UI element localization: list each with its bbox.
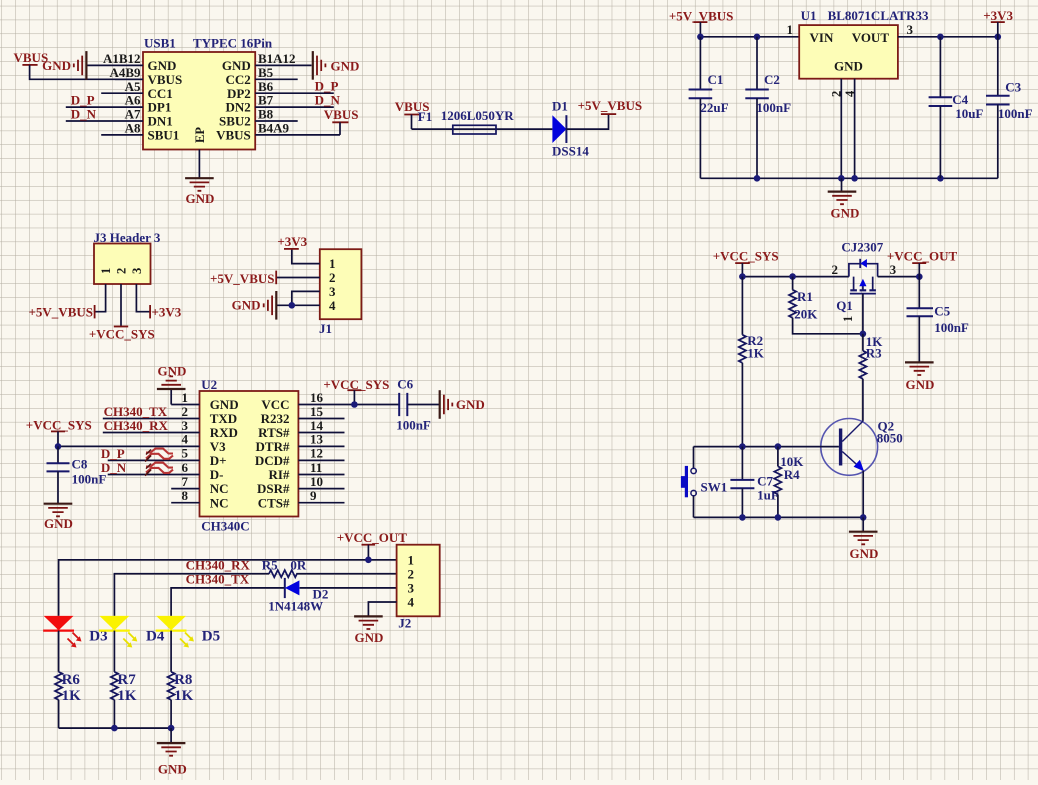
- pin 1 of J3: [95, 284, 106, 312]
- ground GND under USB1: [185, 178, 214, 206]
- svg-text:DTR#: DTR#: [256, 439, 290, 454]
- svg-text:+3V3: +3V3: [277, 234, 307, 249]
- svg-text:GND: GND: [148, 58, 177, 73]
- power port +5V_VBUS at J3: [29, 305, 95, 320]
- svg-text:C1: C1: [708, 72, 724, 87]
- svg-text:NC: NC: [210, 481, 229, 496]
- svg-text:DP1: DP1: [148, 100, 172, 115]
- pin 14 of U2: [298, 418, 344, 433]
- svg-text:+VCC_OUT: +VCC_OUT: [337, 530, 408, 545]
- header J3 body: [94, 230, 161, 284]
- svg-text:4: 4: [843, 90, 857, 97]
- svg-text:B6: B6: [258, 79, 274, 94]
- svg-text:3: 3: [130, 268, 144, 274]
- svg-text:1K: 1K: [117, 688, 136, 704]
- svg-text:B7: B7: [258, 93, 274, 108]
- svg-text:C5: C5: [934, 304, 950, 319]
- capacitor C1 22uF: [689, 37, 729, 179]
- IC U2 CH340C body: [200, 377, 299, 534]
- svg-text:3: 3: [329, 284, 336, 299]
- svg-text:GND: GND: [834, 59, 863, 74]
- pin B1A12: [255, 51, 311, 66]
- svg-text:GND: GND: [222, 58, 251, 73]
- svg-text:F1: F1: [418, 109, 432, 124]
- junction: [860, 331, 867, 338]
- transistor Q2 8050: [821, 418, 903, 475]
- svg-text:VBUS: VBUS: [324, 107, 359, 122]
- pin 4 of J1: [276, 304, 320, 306]
- svg-text:C4: C4: [952, 92, 968, 107]
- ground GND under U1: [828, 178, 860, 220]
- svg-text:GND: GND: [456, 397, 485, 412]
- pin 3 of J3: [136, 284, 150, 312]
- svg-text:CH340_TX: CH340_TX: [186, 572, 250, 587]
- svg-text:GND: GND: [210, 397, 239, 412]
- junction: [289, 302, 296, 309]
- capacitor C6 100nF: [396, 377, 440, 433]
- svg-text:4: 4: [408, 595, 415, 610]
- svg-text:R5: R5: [262, 558, 278, 573]
- svg-text:6: 6: [182, 460, 189, 475]
- svg-text:C8: C8: [72, 457, 88, 472]
- svg-text:RI#: RI#: [269, 467, 290, 482]
- svg-text:20K: 20K: [794, 306, 818, 321]
- svg-text:BL8071CLATR33: BL8071CLATR33: [828, 8, 929, 23]
- svg-text:GND: GND: [331, 59, 360, 74]
- pin 9 of U2: [298, 488, 344, 503]
- svg-text:9: 9: [310, 488, 317, 503]
- junction: [739, 273, 746, 280]
- svg-text:A4B9: A4B9: [109, 65, 141, 80]
- svg-text:GND: GND: [355, 630, 384, 645]
- pin A7: [66, 107, 143, 122]
- power port +VCC_OUT at J2: [337, 530, 408, 560]
- svg-text:+VCC_SYS: +VCC_SYS: [26, 417, 92, 432]
- svg-text:GND: GND: [158, 364, 187, 379]
- pin 3 of U2 wire CH340_RX: [103, 418, 200, 433]
- junction: [754, 175, 761, 182]
- svg-text:R3: R3: [866, 346, 882, 361]
- svg-text:15: 15: [310, 404, 324, 419]
- pin 2 of U1: [830, 79, 844, 179]
- fuse F1 1206L050YR: [418, 108, 514, 134]
- svg-text:8: 8: [182, 488, 189, 503]
- svg-text:100nF: 100nF: [396, 418, 431, 433]
- svg-text:+VCC_SYS: +VCC_SYS: [89, 327, 155, 342]
- power port +3V3: [983, 8, 1013, 37]
- junction: [995, 34, 1002, 41]
- svg-text:1: 1: [329, 256, 336, 271]
- pin B8: [255, 107, 298, 122]
- svg-text:14: 14: [310, 418, 324, 433]
- svg-text:3: 3: [890, 262, 897, 277]
- svg-text:10: 10: [310, 474, 323, 489]
- pin 7 of U2: [171, 474, 199, 489]
- ground GND at J1: [232, 291, 277, 320]
- svg-text:A7: A7: [125, 107, 141, 122]
- svg-text:DSS14: DSS14: [552, 144, 589, 159]
- pin 2 of J3: [120, 284, 122, 326]
- svg-text:VIN: VIN: [810, 30, 834, 45]
- svg-text:C6: C6: [397, 377, 413, 392]
- LED D4 yellow: [99, 616, 165, 648]
- pin 4 of J2 to ground: [368, 602, 396, 616]
- svg-text:+3V3: +3V3: [152, 305, 182, 320]
- svg-text:J3 Header 3: J3 Header 3: [94, 230, 161, 245]
- svg-text:5: 5: [182, 446, 189, 461]
- svg-text:A6: A6: [125, 93, 141, 108]
- capacitor C5 100nF: [907, 277, 969, 363]
- svg-text:13: 13: [310, 432, 324, 447]
- svg-text:USB1: USB1: [144, 36, 176, 51]
- svg-text:+3V3: +3V3: [983, 8, 1013, 23]
- ground GND under Q2: [849, 517, 879, 561]
- svg-text:C7: C7: [757, 474, 773, 489]
- junction: [860, 514, 867, 521]
- resistor R5 0R: [262, 558, 307, 578]
- svg-text:R8: R8: [174, 672, 192, 688]
- svg-text:VOUT: VOUT: [852, 30, 890, 45]
- svg-text:TXD: TXD: [210, 411, 237, 426]
- junction: [754, 34, 761, 41]
- power port VBUS fuse input: [395, 99, 430, 129]
- svg-text:8050: 8050: [877, 430, 903, 445]
- svg-text:V3: V3: [210, 439, 226, 454]
- junction: [365, 557, 372, 564]
- pin B7: [255, 93, 334, 108]
- svg-text:SW1: SW1: [701, 480, 728, 495]
- ground GND under C5: [905, 362, 934, 392]
- svg-text:+VCC_OUT: +VCC_OUT: [887, 248, 958, 263]
- pin 4 of U2 wire: [58, 432, 200, 447]
- power port VBUS right: [324, 107, 359, 135]
- junction: [111, 725, 118, 732]
- wire Q1 drain to +VCC_OUT: [878, 276, 920, 278]
- svg-text:DN2: DN2: [226, 100, 251, 115]
- wire +VCC_SYS to Q1: [742, 276, 849, 278]
- junction: [739, 443, 746, 450]
- svg-text:D_P: D_P: [71, 93, 95, 108]
- pin 1 of J1 to +3V3: [292, 249, 320, 263]
- svg-text:VBUS: VBUS: [216, 128, 251, 143]
- svg-text:SBU1: SBU1: [148, 128, 180, 143]
- svg-text:SBU2: SBU2: [219, 114, 251, 129]
- junction: [937, 175, 944, 182]
- svg-text:12: 12: [310, 446, 323, 461]
- svg-text:7: 7: [182, 474, 189, 489]
- svg-text:100nF: 100nF: [72, 471, 107, 486]
- svg-text:J2: J2: [398, 615, 411, 630]
- svg-text:RXD: RXD: [210, 425, 238, 440]
- svg-text:C2: C2: [764, 72, 780, 87]
- power port +VCC_SYS at U2: [26, 417, 92, 446]
- junction: [697, 34, 704, 41]
- pin 1 of U2: [171, 390, 199, 405]
- svg-text:B5: B5: [258, 65, 274, 80]
- wire VBUS to D1: [412, 128, 553, 130]
- svg-text:VBUS: VBUS: [148, 72, 183, 87]
- pin 11 of U2: [298, 460, 344, 475]
- svg-text:EP: EP: [193, 127, 207, 143]
- svg-text:1: 1: [182, 390, 189, 405]
- svg-text:GND: GND: [850, 546, 879, 561]
- power port +VCC_SYS at switch circuit: [713, 249, 779, 277]
- junction: [775, 514, 782, 521]
- capacitor C4 10uF: [929, 37, 984, 179]
- pin 5 of U2 wire D_P: [101, 446, 200, 461]
- svg-text:+5V_VBUS: +5V_VBUS: [210, 271, 274, 286]
- svg-text:10uF: 10uF: [955, 106, 983, 121]
- ground GND under C8: [44, 504, 73, 531]
- switch SW1: [681, 447, 727, 518]
- svg-text:GND: GND: [185, 191, 214, 206]
- ground rail of switch circuit: [694, 516, 864, 518]
- resistor R7 1K: [111, 631, 137, 729]
- no-ERC marker pin6: [145, 463, 173, 476]
- svg-text:2: 2: [830, 91, 844, 97]
- pin 10 of U2: [298, 474, 344, 489]
- resistor R3 1K: [859, 334, 883, 421]
- svg-text:GND: GND: [158, 762, 187, 777]
- svg-text:U1: U1: [801, 8, 817, 23]
- svg-text:GND: GND: [44, 516, 73, 531]
- capacitor C3 100nF: [986, 37, 1033, 179]
- ground GND right of USB1: [313, 51, 360, 80]
- wire D1 to +5V_VBUS: [566, 114, 608, 129]
- pin A4B9: [109, 65, 143, 80]
- svg-text:R1: R1: [797, 289, 813, 304]
- svg-text:1K: 1K: [62, 688, 82, 704]
- power port +3V3 at J1: [277, 234, 307, 249]
- no-ERC marker pin5: [145, 449, 173, 462]
- resistor R1 20K: [789, 277, 863, 334]
- resistor R4 10K: [774, 447, 804, 518]
- svg-text:22uF: 22uF: [700, 100, 728, 115]
- svg-text:A8: A8: [125, 121, 141, 136]
- pin A1B12: [86, 51, 143, 66]
- LED D3 red: [43, 616, 107, 648]
- header J2 body: [397, 545, 440, 631]
- pin 15 of U2: [298, 404, 344, 419]
- power port +3V3 at J3: [150, 305, 182, 320]
- svg-text:3: 3: [182, 418, 189, 433]
- svg-text:D_N: D_N: [315, 93, 341, 108]
- svg-text:+VCC_SYS: +VCC_SYS: [713, 249, 779, 264]
- wire CH340_RX rail to J2 pin2: [114, 574, 396, 616]
- pin 12 of U2: [298, 446, 344, 461]
- pin 8 of U2: [171, 488, 199, 503]
- svg-text:1206L050YR: 1206L050YR: [441, 108, 515, 123]
- svg-text:100nF: 100nF: [934, 320, 969, 335]
- svg-text:GND: GND: [906, 377, 935, 392]
- svg-text:0R: 0R: [290, 558, 307, 573]
- svg-text:D1: D1: [552, 99, 568, 114]
- svg-text:CH340_RX: CH340_RX: [104, 418, 169, 433]
- svg-text:1: 1: [408, 552, 415, 567]
- junction: [789, 273, 796, 280]
- svg-text:1K: 1K: [174, 688, 194, 704]
- svg-text:R7: R7: [117, 672, 136, 688]
- svg-text:CTS#: CTS#: [258, 495, 290, 510]
- junction: [55, 443, 62, 450]
- svg-text:R4: R4: [784, 467, 800, 482]
- svg-text:C3: C3: [1005, 79, 1021, 94]
- wire +5V_VBUS rail to U1 pin1: [700, 36, 799, 38]
- regulator U1 BL8071CLATR33 body: [799, 8, 929, 79]
- power port +5V_VBUS at D1: [578, 98, 642, 114]
- power port VBUS left: [14, 50, 144, 79]
- svg-text:CH340_TX: CH340_TX: [104, 404, 168, 419]
- pin 2 of J1: [276, 277, 320, 279]
- svg-text:D_P: D_P: [315, 79, 339, 94]
- junction: [739, 514, 746, 521]
- svg-text:CC1: CC1: [148, 86, 173, 101]
- resistor R2 1K: [739, 277, 765, 447]
- junction: [168, 725, 175, 732]
- svg-text:2: 2: [408, 566, 415, 581]
- svg-text:D5: D5: [202, 629, 220, 645]
- power port +5V_VBUS at J1: [210, 271, 276, 286]
- ground GND right of C6: [440, 390, 485, 419]
- junction: [916, 273, 923, 280]
- svg-text:1: 1: [99, 268, 113, 274]
- ground rail of LEDs: [59, 727, 172, 729]
- svg-text:DN1: DN1: [148, 114, 173, 129]
- wire Q2 emitter down: [862, 471, 864, 518]
- junction: [351, 401, 358, 408]
- svg-text:3: 3: [408, 581, 415, 596]
- svg-text:16: 16: [310, 390, 324, 405]
- svg-text:CC2: CC2: [226, 72, 251, 87]
- svg-text:2: 2: [182, 404, 189, 419]
- header J1 body: [319, 249, 361, 336]
- svg-text:A5: A5: [125, 79, 141, 94]
- svg-text:D_N: D_N: [71, 106, 97, 121]
- svg-text:1: 1: [787, 22, 794, 37]
- pin 4 of U1: [843, 79, 857, 179]
- svg-text:D+: D+: [210, 453, 227, 468]
- pin 3 of J1: [292, 291, 320, 305]
- ground rail under U1: [700, 177, 997, 179]
- svg-text:TYPEC 16Pin: TYPEC 16Pin: [193, 36, 273, 51]
- svg-text:NC: NC: [210, 495, 229, 510]
- capacitor C8 100nF: [47, 446, 107, 503]
- ground GND at J2: [354, 616, 383, 645]
- junction: [851, 175, 858, 182]
- resistor R8 1K: [168, 631, 194, 729]
- svg-text:1: 1: [841, 316, 855, 322]
- pin 6 of U2 wire D_N: [101, 460, 200, 475]
- svg-text:2: 2: [115, 268, 129, 274]
- svg-text:GND: GND: [42, 58, 71, 73]
- svg-text:B1A12: B1A12: [258, 51, 296, 66]
- svg-text:1uF: 1uF: [757, 488, 779, 503]
- capacitor C2 100nF: [745, 37, 791, 179]
- svg-text:1K: 1K: [747, 346, 765, 361]
- pin B5: [255, 65, 298, 80]
- svg-text:R232: R232: [261, 411, 290, 426]
- wire +VCC_OUT rail to J2 pin1: [59, 560, 397, 616]
- pin A5: [101, 79, 143, 94]
- diode D1 DSS14: [552, 99, 589, 159]
- junction: [775, 443, 782, 450]
- svg-text:R6: R6: [62, 672, 81, 688]
- wire base rail: [694, 446, 839, 448]
- svg-text:GND: GND: [232, 298, 261, 313]
- pin A6: [66, 93, 143, 108]
- svg-text:J1: J1: [319, 321, 332, 336]
- mosfet Q1 CJ2307: [832, 240, 897, 323]
- svg-text:B4A9: B4A9: [258, 121, 290, 136]
- junction: [838, 175, 845, 182]
- junction: [937, 34, 944, 41]
- svg-text:Q1: Q1: [836, 298, 853, 313]
- ground GND under LEDs: [157, 728, 187, 776]
- wire Q1 gate down: [862, 294, 864, 334]
- svg-text:DSR#: DSR#: [257, 481, 290, 496]
- svg-text:RTS#: RTS#: [258, 425, 290, 440]
- svg-text:CH340_RX: CH340_RX: [186, 557, 251, 572]
- power port +VCC_OUT at Q1: [887, 248, 958, 276]
- svg-text:CJ2307: CJ2307: [841, 240, 883, 255]
- svg-text:GND: GND: [831, 206, 860, 221]
- pin B6: [255, 79, 334, 94]
- pin A8: [101, 121, 143, 136]
- svg-text:D_P: D_P: [101, 446, 125, 461]
- connector USB1 body: [143, 36, 273, 150]
- svg-text:DCD#: DCD#: [255, 453, 290, 468]
- power port +VCC_SYS at J3: [89, 327, 155, 342]
- svg-text:CH340C: CH340C: [201, 519, 249, 534]
- svg-text:A1B12: A1B12: [103, 51, 141, 66]
- power port +VCC_SYS at U2 VCC: [323, 377, 389, 405]
- pin 13 of U2: [298, 432, 344, 447]
- capacitor C7 1uF: [730, 447, 778, 518]
- svg-text:100nF: 100nF: [756, 100, 791, 115]
- ground GND above U2 pin1: [157, 364, 187, 405]
- pin 3 wire to +3V3: [898, 36, 998, 38]
- svg-text:100nF: 100nF: [998, 106, 1033, 121]
- diode D2 1N4148W: [268, 578, 328, 614]
- wire EP to ground: [198, 150, 200, 179]
- svg-text:D-: D-: [210, 467, 224, 482]
- svg-text:2: 2: [832, 262, 839, 277]
- svg-text:+5V_VBUS: +5V_VBUS: [29, 305, 93, 320]
- svg-text:2: 2: [329, 270, 336, 285]
- svg-text:B8: B8: [258, 107, 274, 122]
- LED D5 yellow: [156, 616, 220, 648]
- power port +5V_VBUS at U1: [669, 9, 733, 37]
- svg-text:1N4148W: 1N4148W: [268, 598, 323, 613]
- svg-text:VCC: VCC: [261, 397, 289, 412]
- wire CH340_TX rail to J2 pin3: [171, 588, 397, 616]
- pin 16 of U2 wire VCC: [298, 390, 399, 405]
- ground GND left of USB1: [42, 51, 86, 80]
- svg-text:+5V_VBUS: +5V_VBUS: [578, 98, 642, 113]
- resistor R6 1K: [55, 631, 81, 729]
- svg-text:11: 11: [310, 460, 322, 475]
- svg-text:DP2: DP2: [227, 86, 251, 101]
- svg-text:3: 3: [907, 22, 914, 37]
- svg-text:4: 4: [329, 298, 336, 313]
- svg-text:U2: U2: [201, 377, 217, 392]
- pin B4A9: [255, 121, 340, 136]
- pin 2 of U2 wire CH340_TX: [103, 404, 200, 419]
- svg-text:4: 4: [182, 432, 189, 447]
